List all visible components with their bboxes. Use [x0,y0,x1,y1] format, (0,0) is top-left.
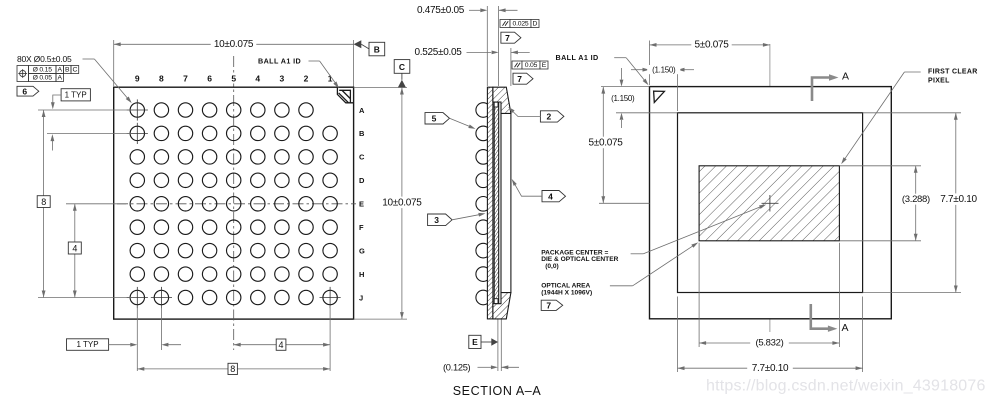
left view: ball A1 corner chamfer mark [337,88,353,103]
left view: top 1 TYP boxed dimension with leader [61,89,90,101]
top view: right extension lines [863,112,961,114]
datum B symbol [354,40,362,48]
svg-text:A: A [842,71,849,83]
section: die top notch [494,102,498,107]
svg-text:4: 4 [255,74,260,84]
svg-text:5±0.075: 5±0.075 [589,137,624,148]
section: bottom extension lines for 0.125 [497,320,499,372]
svg-text:A: A [58,66,63,73]
top view: right vertical dimension (3.288) [915,166,917,241]
section cut arrow A (bottom) [811,304,829,329]
svg-text:D: D [359,176,365,185]
svg-text:B: B [359,129,365,138]
top view: vertical centerline [769,44,771,332]
svg-text:(0.125): (0.125) [443,362,471,372]
top view: bottom dimension (5.832) [699,342,839,344]
section cut arrow A (top) [812,78,830,102]
svg-text:E: E [472,337,478,347]
left view: crosshair ticks on balls A9 B9 J9 J8 J1 [127,99,341,308]
left view: right-side vertical dimension 10±0.075 [401,88,403,320]
svg-text:FIRST CLEAR: FIRST CLEAR [928,68,978,75]
section: parallelism feature control frame 0.05 E [512,61,548,69]
note balloon 7 (top view) [541,300,563,310]
left view: left extension lines rows A B E J [38,109,131,111]
svg-text:PIXEL: PIXEL [928,77,950,84]
top view: left vertical dimension (1.150) [621,68,623,80]
left view: bottom dimension 8 (cols 9 to 1) [137,368,330,370]
svg-text:7: 7 [183,74,188,84]
svg-text:3: 3 [434,215,439,225]
top view: left vertical dimension 5±0.075 [602,87,604,204]
svg-text:E: E [542,62,547,69]
svg-text:3: 3 [280,74,285,84]
svg-text:7: 7 [546,301,551,311]
top view: A1 corner chamfer triangle [654,91,665,102]
svg-text:80X Ø0.5±0.05: 80X Ø0.5±0.05 [17,54,72,64]
svg-text:4: 4 [278,340,283,350]
svg-text:(1.150): (1.150) [652,66,676,75]
svg-text:0.475±0.05: 0.475±0.05 [417,5,465,16]
note balloon 3 with leader to substrate [428,214,453,226]
top view: bottom dimension 7.7±0.10 [678,367,863,369]
top view: bottom extension lines [677,297,679,373]
svg-text:C: C [72,66,77,73]
svg-text:2: 2 [547,112,552,122]
svg-text:0.525±0.05: 0.525±0.05 [415,47,463,58]
section: solder balls (side profile) [476,103,491,305]
svg-text:4: 4 [548,191,553,201]
svg-text:4: 4 [72,243,77,253]
svg-text:6: 6 [207,74,212,84]
left view: ball row letter labels A-J [359,106,365,302]
left view: BGA package bottom-view outline [114,87,354,319]
svg-text:SECTION A–A: SECTION A–A [453,384,542,398]
section: substrate strip hatched [487,87,493,319]
left view: column-5 vertical centerline [233,56,235,350]
note balloon 7 (second) [513,73,533,84]
left view: position tolerance feature control frame [17,66,79,82]
svg-text:8: 8 [230,364,235,374]
top view: right vertical dimension 7.7±0.10 [955,113,957,293]
section: top extension lines for thickness dims [486,6,488,86]
top view: center crosshair [762,202,779,204]
section: parallelism feature control frame 0.025 D [500,20,539,28]
svg-text:H: H [359,270,364,279]
svg-text:7: 7 [505,33,510,43]
section: die strip hatched [494,102,499,304]
svg-text:BALL A1 ID: BALL A1 ID [556,53,599,62]
top view: package outline [650,87,892,319]
section: bottom adhesive dam hatched [493,293,511,319]
note balloon 2 with leader to top dam [540,111,564,122]
svg-text:10±0.075: 10±0.075 [214,39,254,50]
top view: top dimension 5±0.075 [649,41,651,86]
svg-text:5±0.075: 5±0.075 [695,40,730,51]
svg-text:1 TYP: 1 TYP [76,340,98,349]
left view: vertical dimension 4 (rows E to J) [74,204,76,298]
svg-text:A: A [359,106,365,115]
svg-text:https://blog.csdn.net/weixin_4: https://blog.csdn.net/weixin_43918076 [706,378,986,395]
top view: top dimension (1.150) [677,66,679,111]
top view: die outline [678,113,863,293]
left view: bottom 1 TYP boxed dimension [67,339,109,351]
svg-text:5: 5 [432,114,437,124]
left view: vertical dimension 8 (rows A to J) [43,110,45,298]
top view: left extension lines [601,86,650,88]
left view: top dimension 10±0.075 extension lines [113,40,115,86]
datum C symbol [354,87,407,89]
svg-text:Ø 0.15: Ø 0.15 [33,66,53,73]
svg-text:10±0.075: 10±0.075 [382,197,422,208]
svg-text:2: 2 [304,74,309,84]
svg-text:7: 7 [517,74,522,84]
svg-text:8: 8 [159,74,164,84]
svg-text:C: C [399,62,405,72]
svg-text:BALL A1 ID: BALL A1 ID [258,56,301,65]
svg-text:G: G [359,246,365,255]
svg-text:(3.288): (3.288) [902,194,930,205]
svg-text:(1.150): (1.150) [611,94,635,103]
svg-text:8: 8 [41,197,46,207]
svg-text:C: C [359,153,365,162]
note balloon 4 with leader to glass edge [542,191,566,202]
svg-text:E: E [359,200,364,209]
svg-text:A: A [841,322,848,334]
svg-text:0.025: 0.025 [512,20,528,27]
left view: ball column number labels 9-1 [135,73,333,84]
svg-text:F: F [359,223,364,232]
left view: top dimension 10±0.075 [114,43,354,45]
svg-text:(5.832): (5.832) [755,338,783,349]
left view: solder ball grid (80X, A1 omitted) [130,103,337,305]
svg-text:(0,0): (0,0) [545,263,559,270]
svg-text:7.7±0.10: 7.7±0.10 [752,363,789,374]
datum E symbol [469,335,481,348]
svg-text:J: J [359,293,363,302]
svg-text:D: D [533,20,538,27]
note balloon 6 [17,86,39,96]
svg-text:7.7±0.10: 7.7±0.10 [940,194,977,205]
svg-text:B: B [374,44,380,54]
svg-text:Ø 0.05: Ø 0.05 [33,74,53,81]
section: glass lid [501,113,511,292]
svg-text:6: 6 [22,86,27,96]
svg-text:9: 9 [135,74,140,84]
note balloon 5 with leader to ball [425,113,450,124]
top view: optical area hatched [699,166,839,241]
left view: row-E horizontal centerline [117,203,356,205]
note balloon 7 (upper) [501,32,521,43]
svg-text:OPTICAL AREA: OPTICAL AREA [541,282,590,289]
svg-text:0.05: 0.05 [525,62,538,69]
svg-text:A: A [58,74,63,81]
left view: bottom extension lines below J row [136,306,138,371]
svg-text:B: B [65,66,70,73]
section: die bottom notch [494,299,498,304]
left view: bottom dimension 4 (cols 5 to 1) [234,344,330,346]
svg-text:(1944H X 1096V): (1944H X 1096V) [541,289,592,296]
svg-text:1 TYP: 1 TYP [65,91,87,100]
section: top adhesive dam hatched [493,87,511,113]
svg-text:5: 5 [231,74,236,84]
